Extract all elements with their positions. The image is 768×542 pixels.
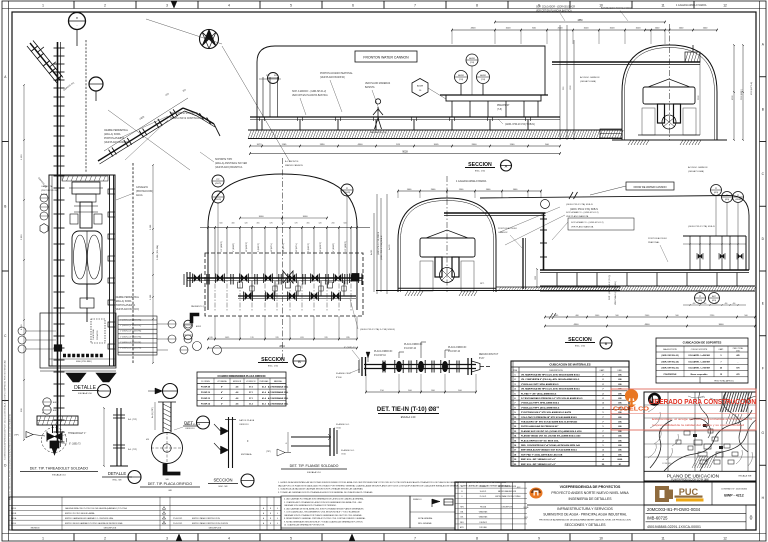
svg-text:10. CUADRILLAS GENERALES POR S: 10. CUADRILLAS GENERALES POR SECTOR. xyxy=(284,524,325,527)
svg-text:1: 1 xyxy=(42,4,44,8)
svg-text:UN.: UN. xyxy=(618,431,622,433)
seccion C balloon xyxy=(600,337,612,349)
svg-text:DIB.: DIB. xyxy=(460,512,464,514)
svg-text:(41N): (41N) xyxy=(714,192,719,194)
svg-text:UN.: UN. xyxy=(618,403,622,405)
svg-text:1000: 1000 xyxy=(584,28,590,30)
svg-text:6" (16B) 73: 6" (16B) 73 xyxy=(69,444,81,446)
main pipe through arch xyxy=(552,61,700,63)
svg-text:(41076): (41076) xyxy=(215,199,222,201)
svg-text:CANT.: CANT. xyxy=(718,348,724,351)
svg-text:COLGANTE - L=500 MM: COLGANTE - L=500 MM xyxy=(688,360,710,363)
svg-text:ESC.: ESC. xyxy=(517,487,521,489)
flange tick on left pipe xyxy=(54,71,65,73)
svg-text:C.MUNOZ: C.MUNOZ xyxy=(479,522,487,524)
spare balloon xyxy=(163,384,178,399)
svg-text:7: 7 xyxy=(720,361,721,363)
svg-text:PO-MP-14: PO-MP-14 xyxy=(201,402,211,405)
ladder rung xyxy=(108,278,115,283)
svg-text:31.2: 31.2 xyxy=(249,403,253,405)
svg-text:PORTON ACCESO: PORTON ACCESO xyxy=(648,237,667,240)
svg-text:FL.PAD T" 2/8" (S10), ASME B: FL.PAD T" 2/8" (S10), ASME B16.5 xyxy=(521,392,557,395)
outer pedestals mid xyxy=(420,261,433,291)
svg-text:WATER CANNON: WATER CANNON xyxy=(285,164,303,167)
svg-text:CODIGO SOPORTE: CODIGO SOPORTE xyxy=(691,349,708,351)
upper manifold valves xyxy=(194,275,200,282)
lower manifold pipe xyxy=(238,295,356,297)
svg-text:UN.: UN. xyxy=(618,398,622,400)
svg-text:VICEPRESIDENCIA DE PROYECTOS: VICEPRESIDENCIA DE PROYECTOS xyxy=(560,485,621,489)
svg-text:ESCALA 1:50: ESCALA 1:50 xyxy=(78,392,92,395)
svg-text:A: A xyxy=(505,164,508,169)
detalle balloon xyxy=(98,385,111,398)
cut flag foot right xyxy=(96,373,116,382)
puc logo brown Q block xyxy=(655,486,673,502)
svg-text:4x195: 4x195 xyxy=(389,244,391,250)
svg-text:400: 400 xyxy=(232,223,235,225)
svg-text:LIBERADO PARA CONSTRUCCIÓN: LIBERADO PARA CONSTRUCCIÓN xyxy=(649,397,756,406)
revision table xyxy=(9,497,281,530)
svg-text:20MC003-I61-PI-DWG-0034: 20MC003-I61-PI-DWG-0034 xyxy=(647,507,701,512)
svg-text:11: 11 xyxy=(661,4,665,8)
left pipe vertical dim xyxy=(23,85,25,440)
svg-text:FLANGE SLIP-ON JNT. SO. (SCH40: FLANGE SLIP-ON JNT. SO. (SCH40 STL) ASME… xyxy=(521,430,582,433)
svg-text:GLB.: GLB. xyxy=(617,459,623,461)
svg-text:(41078): (41078) xyxy=(344,192,351,194)
svg-text:57.1: 57.1 xyxy=(249,398,253,400)
flange tick on left pipe xyxy=(54,155,65,157)
svg-text:1073: 1073 xyxy=(257,144,263,146)
svg-text:SOP. A MARCO - (GDR-SP-01-2): SOP. A MARCO - (GDR-SP-01-2) xyxy=(566,211,599,214)
svg-text:SOP - (GDR-I PW-I2 (T-10)): SOP - (GDR-I PW-I2 (T-10)) xyxy=(609,275,611,300)
threadolet detail plate xyxy=(37,416,78,425)
section balloon top xyxy=(69,13,86,30)
instrument balloons left of pipe xyxy=(40,194,48,202)
svg-text:REDUCCION HCT: REDUCCION HCT xyxy=(479,354,499,356)
svg-text:REV. GENERAL: REV. GENERAL xyxy=(418,522,432,525)
svg-text:REV.0: REV.0 xyxy=(11,508,16,510)
svg-text:(7-8): (7-8) xyxy=(459,79,464,81)
svg-text:UN.: UN. xyxy=(618,440,622,442)
svg-text:P-10 NP-10: P-10 NP-10 xyxy=(404,348,417,350)
right tall dim line xyxy=(152,165,154,363)
manifold left small circles xyxy=(184,321,193,330)
svg-text:PORTON ACCESO: PORTON ACCESO xyxy=(498,227,517,230)
svg-text:1000: 1000 xyxy=(506,28,512,30)
svg-text:NOTA GENERAL: NOTA GENERAL xyxy=(418,517,433,520)
svg-text:UN.: UN. xyxy=(618,417,622,419)
svg-text:Esta revision, el acoge con it: Esta revision, el acoge con itera el Con… xyxy=(652,417,752,421)
cluster risers xyxy=(689,236,691,270)
svg-text:B: B xyxy=(270,508,271,510)
ground hatch right xyxy=(680,140,683,145)
detalle post drawing xyxy=(116,408,118,466)
flange tick on left pipe xyxy=(54,87,65,89)
svg-text:200: 200 xyxy=(332,223,335,225)
svg-text:UN.: UN. xyxy=(618,375,622,377)
svg-text:400: 400 xyxy=(733,303,736,305)
svg-text:UN.: UN. xyxy=(618,379,622,381)
svg-text:A L FRONTIS: A L FRONTIS xyxy=(285,160,299,163)
cannon center circle xyxy=(662,115,676,129)
flange tick on left pipe xyxy=(54,407,65,409)
svg-text:4.8: 4.8 xyxy=(236,397,239,400)
flange tick on left pipe xyxy=(54,115,65,117)
top dim band xyxy=(452,29,665,31)
svg-text:COLGANTE - L=750 MM: COLGANTE - L=750 MM xyxy=(688,367,710,370)
svg-text:4.8: 4.8 xyxy=(236,391,239,394)
svg-text:R.ROJAS: R.ROJAS xyxy=(479,526,487,529)
svg-text:UNID.: UNID. xyxy=(618,370,623,372)
svg-text:CADENAS SON PLOTEADAS POR PLAN: CADENAS SON PLOTEADAS POR PLANOS GENERAL… xyxy=(284,514,363,517)
svg-text:INFRAESTRUCTURA Y SERVICIOS: INFRAESTRUCTURA Y SERVICIOS xyxy=(557,507,613,511)
flange tick on left pipe xyxy=(54,441,65,443)
svg-text:(41N): (41N) xyxy=(712,300,717,302)
svg-text:455: 455 xyxy=(307,223,310,225)
svg-text:CANALETA: CANALETA xyxy=(136,186,148,189)
stairs hatch block xyxy=(118,316,157,355)
svg-text:VER PLANO MADERAS: VER PLANO MADERAS xyxy=(365,82,391,85)
cannon body mid xyxy=(420,238,475,257)
svg-text:(GDR-I OR VEL-05): (GDR-I OR VEL-05) xyxy=(662,368,679,370)
top dim band 2 xyxy=(495,21,665,23)
boxed notes xyxy=(281,496,410,528)
svg-text:5.100 (JDL-N/A): 5.100 (JDL-N/A) xyxy=(156,245,159,260)
svg-text:A.C INOXIDABLE 316L: A.C INOXIDABLE 316L xyxy=(268,391,289,394)
svg-text:3. TODAS LAS CADENAS SON PLOT: 3. TODAS LAS CADENAS SON PLOTEADAS A LA … xyxy=(278,491,373,494)
svg-text:500: 500 xyxy=(220,223,223,225)
svg-text:2000: 2000 xyxy=(558,28,564,30)
svg-text:2" (GSDR-L (3" GSDR-PW)): 2" (GSDR-L (3" GSDR-PW)) xyxy=(120,331,142,333)
svg-text:V.BASTIAS: V.BASTIAS xyxy=(479,516,488,519)
flange tick on left pipe xyxy=(54,187,65,189)
dotted platform rect xyxy=(91,319,105,343)
floor hatch mid xyxy=(405,291,408,296)
svg-text:1000: 1000 xyxy=(259,216,265,218)
cluster dim line xyxy=(683,243,746,245)
flange tick on left pipe xyxy=(54,259,65,261)
svg-text:(GDR-I PW-I2 CTA) SDB-N): (GDR-I PW-I2 CTA) SDB-N) xyxy=(505,123,535,126)
svg-text:COLG.TACCO PRESION 08" STD S: COLG.TACCO PRESION 08" STD SCH-80 ASME B… xyxy=(521,416,578,419)
threadolet stem xyxy=(52,425,54,433)
balloon left of arch xyxy=(212,175,224,187)
svg-text:EMP. EMULACION VEDADO SCH SC: EMP. EMULACION VEDADO SCH SCH-40 ASME B1… xyxy=(521,449,578,452)
svg-text:400: 400 xyxy=(693,303,696,305)
svg-text:Bx (S) (TIP): Bx (S) (TIP) xyxy=(152,407,154,418)
svg-text:SOPORTE TIPO: SOPORTE TIPO xyxy=(215,159,232,161)
detalle post balloon xyxy=(128,471,141,484)
svg-text:ITEM: ITEM xyxy=(513,370,518,372)
cannon legs dark xyxy=(658,104,665,123)
svg-text:GRADOX: GRADOX xyxy=(498,231,508,234)
svg-text:57.1: 57.1 xyxy=(249,392,253,394)
svg-text:D.T.ESCUADRADO PRESION 0-6" ST: D.T.ESCUADRADO PRESION 0-6" STD SCH-80 A… xyxy=(521,397,583,400)
svg-text:8: 8 xyxy=(476,537,478,541)
flange tick on left pipe xyxy=(54,243,65,245)
svg-text:ASDR: ASDR xyxy=(417,85,423,88)
center arch outline xyxy=(208,174,357,310)
diagonal pipe bend xyxy=(183,108,196,113)
svg-text:DIS.: DIS. xyxy=(460,517,464,519)
svg-text:APR.: APR. xyxy=(460,526,464,529)
svg-text:BASISTA: BASISTA xyxy=(365,86,375,89)
ladder rung xyxy=(108,322,115,327)
svg-text:HE-I55-I PW-I2 CONTINUA-N: HE-I55-I PW-I2 CONTINUA-N xyxy=(170,117,202,120)
tie-in small flanges xyxy=(382,361,384,373)
manifold end cap xyxy=(361,274,363,286)
tank body plan xyxy=(72,231,102,284)
svg-text:V.BASTIAS: V.BASTIAS xyxy=(479,511,488,514)
svg-text:INGENIERIA DE DETALLES: INGENIERIA DE DETALLES xyxy=(568,497,612,501)
svg-text:ESCALA: S/E: ESCALA: S/E xyxy=(739,475,752,478)
svg-text:GALERIA OBRA CIVIL PLOTEO DE C: GALERIA OBRA CIVIL PLOTEO DE CHK GALERIA… xyxy=(65,507,127,510)
platform risers xyxy=(460,84,462,95)
platform raised xyxy=(446,95,541,101)
approval columns table xyxy=(457,482,459,530)
fold mark bottom left xyxy=(176,534,182,541)
svg-text:PRECHEST: PRECHEST xyxy=(497,105,510,107)
svg-text:21-09-2021: 21-09-2021 xyxy=(173,523,182,525)
svg-text:ESCALA 1:10: ESCALA 1:10 xyxy=(52,474,66,477)
codelco logo orange circle xyxy=(625,389,638,402)
svg-text:FECHA: FECHA xyxy=(480,505,487,508)
svg-text:(VER PLANO) BASISTICA: (VER PLANO) BASISTICA xyxy=(215,166,243,169)
top dim arch mid xyxy=(398,190,541,192)
svg-text:5. CUADRILLAS PLOTEADAS DE LA: 5. CUADRILLAS PLOTEADAS DE LA SECCION SO… xyxy=(284,501,362,504)
svg-text:SIMBOLO: SIMBOLO xyxy=(413,499,422,501)
svg-text:UN.: UN. xyxy=(618,393,622,395)
svg-text:FY.NYTEKHOLM 8" STD SCH ASME: FY.NYTEKHOLM 8" STD SCH ASME B16.5 ASTM xyxy=(521,411,571,414)
flange tick on left pipe xyxy=(54,431,65,433)
svg-text:A.C INOXIDABLE 316L: A.C INOXIDABLE 316L xyxy=(268,402,289,405)
svg-text:ESC. 5/8: ESC. 5/8 xyxy=(219,486,229,488)
fronton label box xyxy=(355,51,417,62)
svg-text:ASDR: ASDR xyxy=(458,74,464,77)
svg-text:4850: 4850 xyxy=(577,20,583,22)
mid diagonal pipe xyxy=(98,108,183,161)
hatched floor strip right of arch xyxy=(496,286,620,288)
svg-text:NPT.: NPT. xyxy=(480,283,485,285)
fronton dim line 2 xyxy=(250,153,560,155)
balloon stem xyxy=(76,30,78,47)
map hatch patch xyxy=(692,456,698,468)
svg-text:FLANGE VEDAD JNT. SO. (SCH40 S: FLANGE VEDAD JNT. SO. (SCH40 STL) ASME B… xyxy=(521,435,581,438)
arrow to spare balloon xyxy=(155,388,163,394)
svg-text:(TIP): (TIP) xyxy=(14,435,19,437)
svg-text:FLANGE S.O.: FLANGE S.O. xyxy=(341,449,355,452)
svg-text:PO-MP-10: PO-MP-10 xyxy=(201,392,210,394)
svg-text:VER PLANO BASISTA: VER PLANO BASISTA xyxy=(571,226,594,229)
arch mid-right centerline xyxy=(446,176,448,292)
svg-text:(7-8): (7-8) xyxy=(481,79,486,81)
svg-text:AGUA: AGUA xyxy=(136,194,143,197)
flange soldado pipe xyxy=(291,436,330,438)
svg-text:1000: 1000 xyxy=(535,276,537,280)
svg-text:2021: 2021 xyxy=(524,517,528,519)
margin balloons left xyxy=(18,327,26,335)
seccion B balloon xyxy=(293,355,306,368)
svg-text:Ø TUBERIA: Ø TUBERIA xyxy=(217,380,227,383)
arch centerline xyxy=(669,24,671,140)
svg-text:CIERRE PERIMETRAL: CIERRE PERIMETRAL xyxy=(104,129,129,132)
svg-text:(7-8): (7-8) xyxy=(497,109,502,111)
svg-text:ASDR: ASDR xyxy=(53,401,59,404)
arch inner dim xyxy=(699,62,701,135)
svg-text:VER PLANO BASISTA: VER PLANO BASISTA xyxy=(566,215,589,218)
svg-text:15: 15 xyxy=(720,374,722,376)
svg-text:27-08-21: 27-08-21 xyxy=(480,486,487,488)
svg-text:B: B xyxy=(4,205,6,209)
svg-text:9. NOTAS GENERALES SEGUN NOTA: 9. NOTAS GENERALES SEGUN NOTA N° 7 TODAS… xyxy=(284,520,363,523)
svg-text:DET. TIP. THREADOLET SOLDADO: DET. TIP. THREADOLET SOLDADO xyxy=(30,467,89,471)
contract cell xyxy=(711,481,713,505)
drawing number rows xyxy=(644,504,756,506)
break marks xyxy=(569,192,578,199)
vert dim small xyxy=(536,269,538,287)
svg-text:170: 170 xyxy=(270,223,273,225)
svg-text:(GDR-I OR VEL-04): (GDR-I OR VEL-04) xyxy=(662,360,679,363)
svg-text:2834: 2834 xyxy=(279,345,285,348)
left vertical dims arch mid xyxy=(380,198,382,292)
left end flange stack xyxy=(186,272,188,287)
svg-text:-: - xyxy=(77,23,78,27)
svg-text:FROW DE WATER CANNON: FROW DE WATER CANNON xyxy=(634,186,667,189)
lower balloons on pipe xyxy=(43,398,51,406)
cluster bottom dims xyxy=(683,304,746,306)
cannon circle mid xyxy=(440,268,455,283)
svg-text:PLACA ORIFICIO 08" SO. INOX: PLACA ORIFICIO 08" SO. INOX 316L xyxy=(521,439,559,442)
svg-text:ESCALA 1:20: ESCALA 1:20 xyxy=(401,416,416,419)
svg-text:CIERRE PERIMETRAL: CIERRE PERIMETRAL xyxy=(115,296,140,299)
piping cluster cross pipe xyxy=(683,235,746,237)
svg-text:8: 8 xyxy=(476,4,478,8)
flange tick on left pipe xyxy=(54,125,65,127)
tie-in riser labels xyxy=(398,352,400,358)
balloon left fronton xyxy=(268,73,279,84)
door bar xyxy=(522,238,524,289)
svg-text:6: 6 xyxy=(352,4,354,8)
tank nozzles xyxy=(86,284,88,300)
cannon outer pedestals xyxy=(642,108,655,135)
flange tick on left pipe xyxy=(54,175,65,177)
svg-text:THREADOLET 1": THREADOLET 1" xyxy=(68,432,86,435)
ladder rung xyxy=(108,189,115,194)
svg-text:P-10 NP 10: P-10 NP 10 xyxy=(374,355,387,357)
flange tick on left pipe xyxy=(54,383,65,385)
svg-text:A.C INOXIDABLE 316L: A.C INOXIDABLE 316L xyxy=(268,397,289,400)
svg-text:COLGANTE - L=500 MM: COLGANTE - L=500 MM xyxy=(688,354,710,357)
svg-text:2600: 2600 xyxy=(472,144,478,146)
flange dims xyxy=(287,432,289,452)
ladder rung xyxy=(108,256,115,261)
svg-text:6" (16P) 4.1: 6" (16P) 4.1 xyxy=(344,347,356,349)
svg-text:4.8: 4.8 xyxy=(236,402,239,405)
svg-text:SOP. PAD T" (S10), ASTM A36 /: SOP. PAD T" (S10), ASTM A36 / A53 GrB xyxy=(521,453,563,456)
placa orificio plate circle xyxy=(152,433,183,464)
flange tick on left pipe xyxy=(54,199,65,201)
svg-text:SECCION: SECCION xyxy=(213,478,232,483)
svg-text:9: 9 xyxy=(538,537,540,541)
elevation floor xyxy=(540,285,755,287)
svg-text:Marco suspendido: Marco suspendido xyxy=(691,374,709,376)
svg-text:UN.: UN. xyxy=(618,422,622,424)
svg-text:BWP - 4212: BWP - 4212 xyxy=(724,494,744,498)
corner flag symbol xyxy=(190,313,199,323)
fronton label box 2 xyxy=(626,182,674,190)
svg-text:PORTON ACCESO PEATONAL: PORTON ACCESO PEATONAL xyxy=(320,72,353,75)
svg-text:T (BSP-T): T (BSP-T) xyxy=(308,243,310,252)
svg-text:870: 870 xyxy=(736,368,739,370)
svg-text:4. LAS CADENAS PLOTEADAS SON: 4. LAS CADENAS PLOTEADAS SON GENERALES D… xyxy=(284,498,365,501)
svg-text:3: 3 xyxy=(166,537,168,541)
worker figure xyxy=(373,99,383,129)
elevation dim line 1 xyxy=(545,316,755,318)
svg-text:SECCIONES Y DETALLES: SECCIONES Y DETALLES xyxy=(564,523,606,527)
svg-text:VN. COMPUERTA 8" (PN-2-A), AY: VN. COMPUERTA 8" (PN-2-A), AYN. SEGUN AS… xyxy=(521,378,580,381)
svg-text:RED. CONCENTRICA 8"x6"SCH40, A: RED. CONCENTRICA 8"x6"SCH40, ASTM A234 W… xyxy=(521,444,580,447)
svg-text:(41N): (41N) xyxy=(698,300,703,302)
svg-text:425: 425 xyxy=(736,354,739,357)
svg-text:FRONTIS DE ALIMENTACION DE AGU: FRONTIS DE ALIMENTACION DE AGUA PARA WAT… xyxy=(539,519,631,522)
svg-text:SOP. COLGADOR - (GDR-00101HCR: SOP. COLGADOR - (GDR-00101HCR xyxy=(536,6,575,9)
flange tick on left pipe xyxy=(54,307,65,309)
right side rotated labels xyxy=(376,194,378,294)
svg-text:VY.BOLLA 2 NPT. SFNL ASME B16: VY.BOLLA 2 NPT. SFNL ASME B16.5 xyxy=(521,383,559,386)
flange tick on left pipe xyxy=(54,213,65,215)
cannon base line xyxy=(638,134,700,136)
svg-text:ASDR: ASDR xyxy=(53,409,59,412)
lower manifold drops xyxy=(251,281,253,296)
svg-text:(VER PLANO BASISTA): (VER PLANO BASISTA) xyxy=(320,76,345,79)
svg-text:7: 7 xyxy=(414,4,416,8)
svg-text:4500 (NPT+N): 4500 (NPT+N) xyxy=(751,82,753,95)
svg-text:12: 12 xyxy=(723,537,727,541)
svg-text:5: 5 xyxy=(290,537,292,541)
svg-text:4" (BSET): 4" (BSET) xyxy=(333,243,335,252)
symbol legend box xyxy=(410,496,455,528)
svg-text:(GDR-I PW-I2 CTA) F-CTA) SDB-N: (GDR-I PW-I2 CTA) F-CTA) SDB-N) xyxy=(360,328,395,331)
svg-text:4x195: 4x195 xyxy=(371,250,373,255)
step structure xyxy=(600,129,622,138)
flange soldado welds xyxy=(328,434,331,440)
svg-text:8x1 (TIP): 8x1 (TIP) xyxy=(128,449,137,451)
cluster instrument balloons xyxy=(711,185,722,196)
svg-text:1165: 1165 xyxy=(282,144,287,146)
svg-text:4300: 4300 xyxy=(471,28,477,30)
svg-text:CUADRO DIMENSIONES PLACA ORIFI: CUADRO DIMENSIONES PLACA ORIFICIO xyxy=(218,375,266,378)
svg-text:ASDR: ASDR xyxy=(196,325,202,328)
flange tick on left pipe xyxy=(54,79,65,81)
pit outline lower box xyxy=(40,313,116,368)
legend flag symbol xyxy=(432,499,440,504)
svg-text:(PROYECCION): (PROYECCION) xyxy=(41,190,57,192)
svg-text:PLACA ORIFICIO: PLACA ORIFICIO xyxy=(448,346,466,349)
elevation top profile xyxy=(480,196,749,271)
svg-text:PORTON+PUERTA: PORTON+PUERTA xyxy=(115,304,136,307)
arch top dim xyxy=(645,29,717,31)
svg-text:(GDR-I PW-I2 CTA) SDB-N: (GDR-I PW-I2 CTA) SDB-N xyxy=(377,231,380,255)
flange tick on left pipe xyxy=(54,347,65,349)
canaleta ladder column xyxy=(109,175,111,366)
svg-text:LP (BT%): LP (BT%) xyxy=(271,243,273,252)
svg-text:(TIP): (TIP) xyxy=(266,451,271,453)
svg-text:UN.: UN. xyxy=(618,445,622,447)
svg-text:LP (BT%): LP (BT%) xyxy=(296,243,298,252)
svg-text:VN. MARIPOSA 8IN TIPO LUG, AY: VN. MARIPOSA 8IN TIPO LUG, AYN. SEGUN AS… xyxy=(521,388,581,391)
svg-text:21-10-21: 21-10-21 xyxy=(480,496,487,498)
tie-in right reducer xyxy=(467,358,469,375)
stamp divider red xyxy=(611,413,756,415)
